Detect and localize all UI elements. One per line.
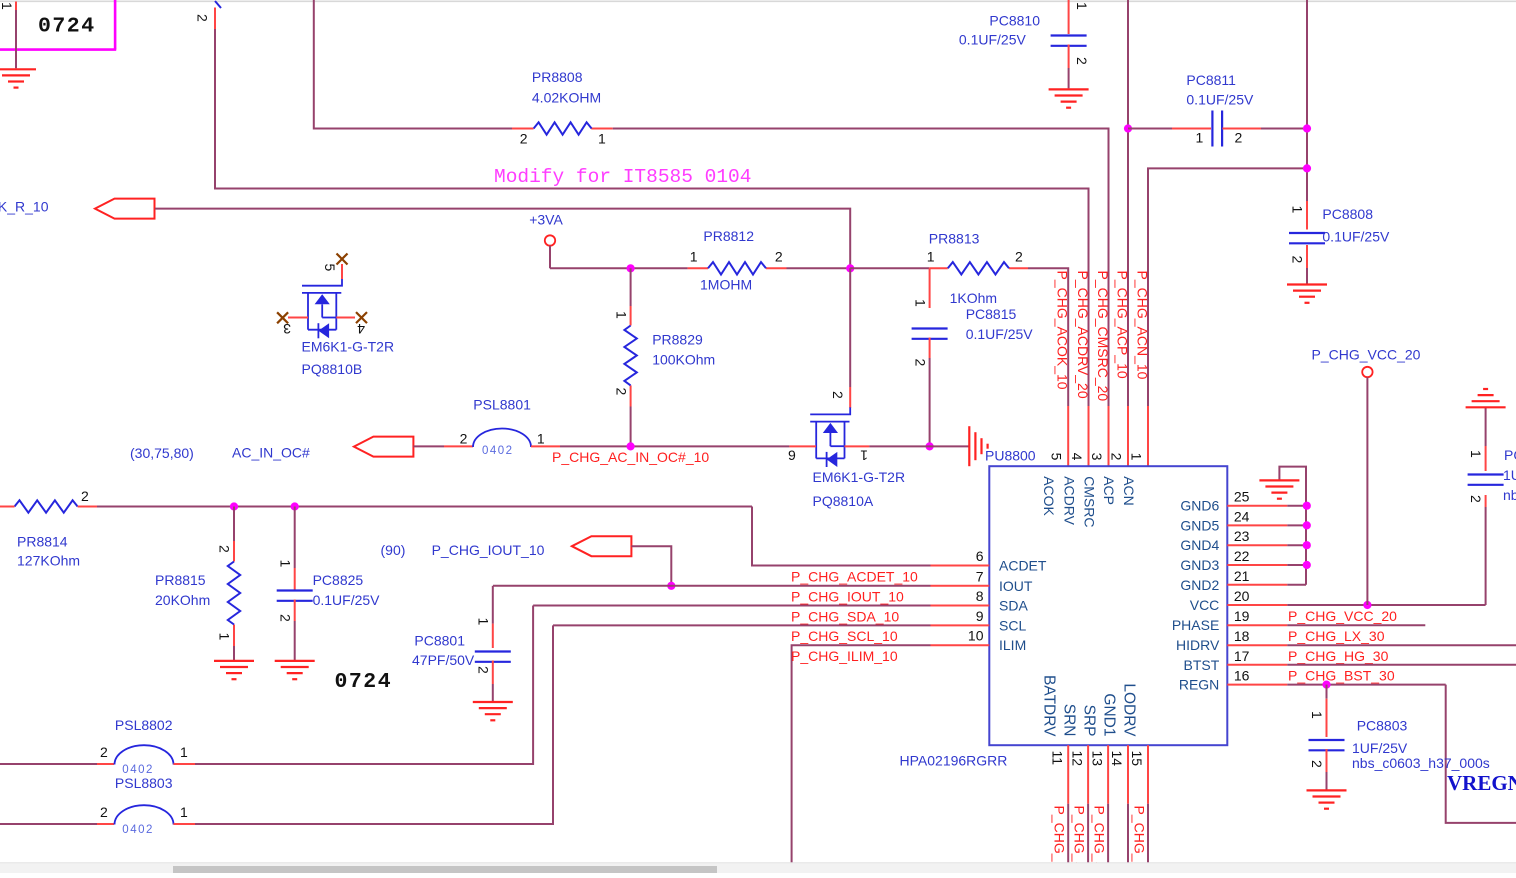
no-connect X pin3 [277,312,288,323]
inductor PSL8803 arc [115,805,174,824]
net label P_CHG_ACP_10 [1115,271,1131,379]
svg-text:1: 1 [1309,711,1325,719]
pin 13 number (bottom) [1089,751,1105,767]
pin name ACDRV [1062,476,1078,525]
svg-text:(90): (90) [381,542,406,558]
transistor PQ8810B symbol [302,279,342,339]
svg-text:P_CHG_HG_30: P_CHG_HG_30 [1288,648,1389,664]
pin number 2 (PC8815) [913,359,929,367]
pin name ACDET [999,558,1047,574]
svg-text:Modify for IT8585 0104: Modify for IT8585 0104 [494,166,751,188]
svg-text:2: 2 [1290,256,1306,264]
junction PR8815 top [230,502,238,510]
pin 12 stub (bottom) [1087,745,1089,804]
pin 15 stub (bottom) [1147,745,1149,804]
wire VCC net [1287,604,1485,606]
pin name HIDRV [1176,637,1220,653]
resistor PR8813 stubs [929,267,1028,269]
svg-text:PC8803: PC8803 [1357,718,1408,734]
pin number 1 (PC8801) [475,618,491,626]
value 4.02KOHM [532,90,601,106]
svg-text:P_CHG_SCL_10: P_CHG_SCL_10 [791,628,898,644]
pin name GND2 [1180,577,1219,593]
net label P_CHG_BATDRV_10 [1052,806,1068,878]
pin number 1 (PC8815) [913,299,929,307]
svg-text:GND2: GND2 [1180,577,1219,593]
svg-text:ACDRV: ACDRV [1062,476,1078,525]
wire GND bus [1279,467,1306,585]
svg-text:13: 13 [1089,751,1105,767]
svg-text:GND3: GND3 [1180,557,1219,573]
net label P_CHG_IOUT_10 (net) [791,589,904,605]
pin 14 stub (bottom) [1127,745,1129,804]
svg-text:EM6K1-G-T2R: EM6K1-G-T2R [302,339,395,355]
wire PSL8801 pin1 stub [531,445,560,447]
svg-text:2: 2 [520,131,528,147]
svg-text:BTST: BTST [1184,657,1220,673]
svg-text:VCC: VCC [1190,597,1220,613]
capacitor PC8815 plates [912,329,948,339]
wire PQ8810A source to ground [869,445,969,447]
svg-text:nbs_c0603_h37_000s: nbs_c0603_h37_000s [1352,755,1490,771]
pin number 2 (PSL8801) [460,431,468,447]
svg-text:100KOhm: 100KOhm [652,352,715,368]
pin 25 number [1234,489,1250,505]
pin 11 number (bottom) [1049,751,1065,766]
junction REGN/PC8803 [1322,681,1330,689]
capacitor PC8808 pin1 stub [1306,201,1308,230]
svg-text:PC8811: PC8811 [1186,72,1236,88]
svg-text:P_CHG_ACOK_10: P_CHG_ACOK_10 [1055,271,1071,390]
pin 23 stub (right) [1227,544,1287,546]
ground (PC8810) [1049,89,1089,107]
value 1UF/25V [1352,740,1408,756]
svg-text:LODRV: LODRV [1120,683,1137,737]
ground (PC8808) [1287,285,1327,303]
svg-text:BATDRV: BATDRV [1041,675,1058,737]
capacitor PC8808 plates [1289,233,1325,243]
label PC8801 [414,633,465,649]
pin 15 number (bottom) [1129,751,1145,767]
wire HIDRV net [1287,644,1516,646]
pin 9 stub (PQ8810A) [789,445,816,447]
svg-text:REGN: REGN [1179,677,1219,693]
svg-text:0724: 0724 [335,670,393,694]
power label P_CHG_VCC_20 [1312,347,1421,363]
svg-text:0724: 0724 [38,15,96,39]
wire PR8812 pin2 to gate node [787,267,851,269]
wire PC8825 top [294,507,296,590]
svg-text:0402: 0402 [482,445,514,457]
pin number 1 (PC8808) [1290,206,1306,214]
svg-text:P_CHG_IOUT_10: P_CHG_IOUT_10 [791,589,904,605]
port name P_CHG_IOUT_10 [432,542,545,558]
pin number 2 (PQ8810A) [830,391,846,399]
wire PSL8803 left [0,823,114,825]
label PSL8802 [115,717,173,733]
value 1KOhm [950,290,997,306]
svg-text:15: 15 [1129,751,1145,767]
pin 6 number [976,548,984,564]
svg-text:P_CHG_ILIM_10: P_CHG_ILIM_10 [791,648,898,664]
pin number 1 (PSL8803) [180,804,188,820]
pin 2 stub (PQ8810A) [849,387,851,408]
resistor PR8812 zigzag [708,262,766,274]
part number HPA02196RGRR [900,753,1008,769]
svg-text:2: 2 [830,391,846,399]
net label P_CHG_LX_30 [1288,628,1385,644]
pin name GND4 [1180,537,1219,553]
wire GND pin 25 to bus [1287,505,1306,507]
port name AC_IN_OC# [232,445,310,461]
value 1UF (cut) [1503,467,1516,483]
wire REGN net [1287,684,1445,686]
svg-text:P_CHG_ACP_10: P_CHG_ACP_10 [1115,271,1131,379]
wire PSL8802 left [0,763,114,765]
svg-text:0.1UF/25V: 0.1UF/25V [966,326,1034,342]
svg-text:PR8813: PR8813 [929,231,980,247]
label PR8812 [703,228,754,244]
svg-text:2: 2 [100,744,108,760]
wire ACP net vertical [1127,0,1129,406]
net label P_CHG_LODRV_30 [1132,806,1148,878]
pin name BTST [1184,657,1220,673]
svg-text:ACN: ACN [1121,476,1137,506]
pin number 1 (PC8803) [1309,711,1325,719]
ground (PR8815) [214,661,254,679]
svg-text:2: 2 [81,488,89,504]
svg-text:P_CHG_ACDRV_20: P_CHG_ACDRV_20 [1075,271,1091,399]
svg-text:PC8815: PC8815 [966,306,1017,322]
value 47PF/50V [412,652,475,668]
svg-text:22: 22 [1234,548,1250,564]
sheet label 0724 (bottom) [335,670,393,694]
pin 4 stub (PQ8810B) [336,317,355,319]
pin number 2 (PR8814) [81,488,89,504]
pin number 1 (PC8811) [1196,130,1204,146]
wire ACN net [1148,168,1307,406]
svg-text:P_CHG_VCC_20: P_CHG_VCC_20 [1312,347,1421,363]
junction PR8829 top [627,264,635,272]
label PC8810 [989,13,1040,29]
pin 16 number [1234,668,1250,684]
pin 11 stub (bottom) [1067,745,1069,804]
svg-text:SDA: SDA [999,598,1028,614]
junction GND pin 25 [1303,502,1311,510]
svg-text:2: 2 [1074,57,1090,65]
pin name ACP [1101,476,1117,505]
value 0.1UF/25V (PC8810) [959,32,1027,48]
wire pin 15 down [1147,804,1149,865]
resistor PR8814 zigzag [15,500,78,512]
wire ACDET net [752,507,931,566]
pin number 1 (C-right) [1468,450,1484,458]
svg-text:4: 4 [1069,453,1085,461]
pin number 2 (PC8810) [1074,57,1090,65]
svg-text:PU8800: PU8800 [985,448,1036,464]
svg-text:P_CHG_BST_30: P_CHG_BST_30 [1288,668,1395,684]
pin name PHASE [1172,617,1219,633]
pin 14 number (bottom) [1109,751,1125,767]
label PC8815 [966,306,1017,322]
pin 13 stub (bottom) [1107,745,1109,804]
svg-text:127KOhm: 127KOhm [17,553,80,569]
svg-text:3: 3 [283,321,291,337]
svg-text:PC8801: PC8801 [414,633,465,649]
svg-text:1: 1 [1290,206,1306,214]
window top border line [0,0,1516,2]
resistor PR8808 stubs [512,128,613,130]
pin number 2 (PC8803) [1309,760,1325,768]
wire gate node to PR8813 [850,267,929,269]
wire pin 11 down [1067,804,1069,865]
svg-text:12: 12 [1069,751,1085,767]
svg-text:IOUT: IOUT [999,578,1033,594]
resistor PR8815 stubs [233,541,235,646]
pin 22 stub (right) [1227,564,1287,566]
resistor PR8829 stubs [630,306,632,407]
net label P_CHG_SRN_20 [1072,806,1088,878]
svg-text:GND4: GND4 [1180,537,1219,553]
pin name SCL [999,617,1026,633]
wire PR8829 top [630,268,632,306]
port name K_R_10 (cut at edge) [0,199,49,215]
svg-text:4: 4 [357,321,365,337]
svg-text:PC8810: PC8810 [989,13,1040,29]
net label P_CHG_SDA_10 [791,608,899,624]
svg-text:2: 2 [775,249,783,265]
sheet symbol box (magenta) with 0724 [0,0,116,50]
wire SDA net [533,605,930,607]
net label P_CHG_ACN_10 [1135,271,1151,380]
wire PSL8802 right [174,606,534,765]
svg-text:P_CHG_CMSRC_20: P_CHG_CMSRC_20 [1095,271,1111,402]
svg-text:1: 1 [614,311,630,319]
resistor PR8812 stubs [688,267,787,269]
junction x1307/y128 [1303,124,1311,132]
svg-text:1: 1 [217,633,233,641]
value 0.1UF/25V (PC8825) [313,592,381,608]
label EM6K1-G-T2R (PQ8810B) [302,339,395,355]
svg-text:8: 8 [976,588,984,604]
svg-text:PHASE: PHASE [1172,617,1219,633]
svg-text:1: 1 [0,2,15,10]
wire PC8815 bottom [929,338,931,447]
label PR8813 [929,231,980,247]
capacitor PC8808 pin2 stub [1306,245,1308,284]
resistor PR8815 zigzag [228,562,240,625]
svg-text:0.1UF/25V: 0.1UF/25V [313,592,381,608]
pin 16 stub (right) [1227,684,1287,686]
pin 23 number [1234,528,1250,544]
sheet label 0724 (top-left) [38,15,96,39]
pin 4 stub (ACDRV) [1088,406,1090,466]
svg-text:1: 1 [180,744,188,760]
svg-text:2: 2 [217,545,233,553]
port arrow P_CHG_IOUT_10 [572,536,632,556]
label PSL8801 [473,397,531,413]
svg-text:16: 16 [1234,668,1250,684]
svg-text:PSL8802: PSL8802 [115,717,173,733]
junction GND pin 23 [1303,541,1311,549]
value 100KOhm [652,352,715,368]
capacitor C-right pin1 stub [1485,408,1487,471]
pin 12 number (bottom) [1069,751,1085,767]
ground (C-right, inverted) [1466,389,1506,407]
footprint 0402 (PSL8802) [122,764,154,776]
svg-text:GND5: GND5 [1180,517,1219,533]
svg-text:EM6K1-G-T2R: EM6K1-G-T2R [813,469,906,485]
power label +3VA [529,212,563,228]
footprint 0402 (PSL8803) [122,824,154,836]
pin number 2 (PR8813) [1015,249,1023,265]
wire ACOK net [1028,268,1068,406]
svg-text:47PF/50V: 47PF/50V [412,652,475,668]
svg-text:2: 2 [100,804,108,820]
no-connect X pin4 [356,312,367,323]
capacitor C-right pin2 stub [1485,495,1487,507]
port arrow K_R_10 [95,199,155,219]
pin number 2 (PC8801) [475,666,491,674]
inductor PSL8801 arc [473,429,531,448]
junction GND pin 24 [1303,521,1311,529]
pin 25 stub (right) [1227,505,1287,507]
svg-text:P_CHG_IOUT_10: P_CHG_IOUT_10 [432,542,545,558]
pin name SRP [1080,705,1097,737]
wire K_R_10 to gate node [155,209,850,269]
svg-text:10: 10 [968,628,984,644]
pin name GND5 [1180,517,1219,533]
pin 2 stub (ACP) [1127,406,1129,466]
svg-text:PC8804: PC8804 [1504,447,1516,463]
wire PC8808 net vertical top [1306,0,1308,201]
ground (PC8825) [275,661,315,679]
pin 18 stub (right) [1227,644,1287,646]
pin 20 stub (right) [1227,604,1287,606]
label PC8811 [1186,72,1236,88]
net label P_CHG_ACOK_10 [1055,271,1071,390]
pin number 1 (PC8810) [1074,2,1090,10]
wire PR8815 top [233,507,235,542]
svg-text:20KOhm: 20KOhm [155,592,210,608]
pin 21 number [1234,568,1250,584]
wire PC8811 pin2 to ACN bus [1222,128,1307,130]
svg-text:0.1UF/25V: 0.1UF/25V [1186,92,1254,108]
pin name IOUT [999,578,1033,594]
wire pin 12 down [1087,804,1089,865]
svg-text:2: 2 [1015,249,1023,265]
svg-text:1: 1 [913,299,929,307]
pin 24 number [1234,508,1250,524]
svg-text:21: 21 [1234,568,1250,584]
wire PSL8803 right [174,625,554,824]
pin number 2 (PC8808) [1290,256,1306,264]
pin number 1 (PSL8802) [180,744,188,760]
svg-text:4.02KOHM: 4.02KOHM [532,90,601,106]
svg-text:20: 20 [1234,588,1250,604]
svg-text:PR8815: PR8815 [155,572,206,588]
svg-text:+3VA: +3VA [529,212,563,228]
svg-text:1KOhm: 1KOhm [950,290,997,306]
junction IOUT [667,582,675,590]
pin number 1 (PSL8801) [537,431,545,447]
svg-text:5: 5 [1049,453,1065,461]
pin name GND3 [1180,557,1219,573]
svg-text:SCL: SCL [999,617,1026,633]
resistor PR8813 zigzag [948,262,1009,274]
svg-text:7: 7 [976,568,984,584]
pin number 2 (PR8815) [217,545,233,553]
svg-text:PSL8801: PSL8801 [473,397,531,413]
pin 9 stub (left) [931,624,990,626]
no-connect X pin5 [337,254,348,265]
wire IOUT port tail [631,546,671,586]
net label P_CHG_BST_30 [1288,668,1395,684]
svg-text:0402: 0402 [122,824,154,836]
pin 6 stub (left) [931,565,990,567]
net label P_CHG_ACDRV_20 [1075,271,1091,399]
capacitor PC8825 plates [277,591,313,601]
pin number 2 (C-right) [1468,495,1484,503]
pin number 1 (PR8808) [598,131,606,147]
resistor PR8829 zigzag [624,326,636,386]
svg-text:ACDET: ACDET [999,558,1047,574]
value 0.1UF/25V (PC8815) [966,326,1034,342]
wire top-left ground drop [15,2,17,69]
svg-text:AC_IN_OC#: AC_IN_OC# [232,445,310,461]
scrollbar track [0,863,1516,874]
capacitor PC8803 plates [1309,740,1345,750]
svg-text:SRN: SRN [1060,704,1077,737]
value 20KOhm [155,592,210,608]
pin 5 number (top) [1049,453,1065,461]
wire GND2 to bus [1287,584,1306,586]
svg-text:PR8829: PR8829 [652,332,703,348]
IC PU8800 body [989,466,1227,745]
value 0.1UF/25V (PC8808) [1322,229,1390,245]
wire PHASE net [1287,624,1425,626]
pin 3 stub (CMSRC) [1108,406,1110,466]
label PC8825 [313,572,364,588]
refdes PQ8810A [813,493,874,509]
label EM6K1-G-T2R (PQ8810A) [813,469,906,485]
net label P_CHG_CMSRC_20 [1095,271,1111,402]
capacitor PC8810 plates [1051,36,1087,46]
wire CMSRC net right segment [613,129,1109,407]
pin 21 stub (right) [1227,584,1287,586]
junction VCC [1363,601,1371,609]
wire port to PSL8801 [413,445,473,447]
scrollbar thumb [173,866,717,873]
pin 20 number [1234,588,1250,604]
capacitor C-right plates [1468,475,1504,485]
ground (top-left) [0,69,36,87]
svg-text:2: 2 [1109,453,1125,461]
wire GND pin 23 to bus [1287,544,1306,546]
pin name GND1 [1100,693,1117,736]
pin number 1 (top-left, cut) [0,2,15,10]
svg-text:P_CHG_AC_IN_OC#_10: P_CHG_AC_IN_OC#_10 [552,449,709,465]
capacitor PC8801 pin2 stub [492,661,494,702]
pin 4 number (top) [1069,453,1085,461]
svg-text:PR8814: PR8814 [17,534,68,550]
svg-text:P_CHG_ACDET_10: P_CHG_ACDET_10 [791,568,918,584]
svg-text:ILIM: ILIM [999,637,1026,653]
svg-text:GND1: GND1 [1100,693,1117,736]
junction PC8815/source row [926,442,934,450]
pin name REGN [1179,677,1219,693]
wire CMSRC net left segment [314,0,512,129]
